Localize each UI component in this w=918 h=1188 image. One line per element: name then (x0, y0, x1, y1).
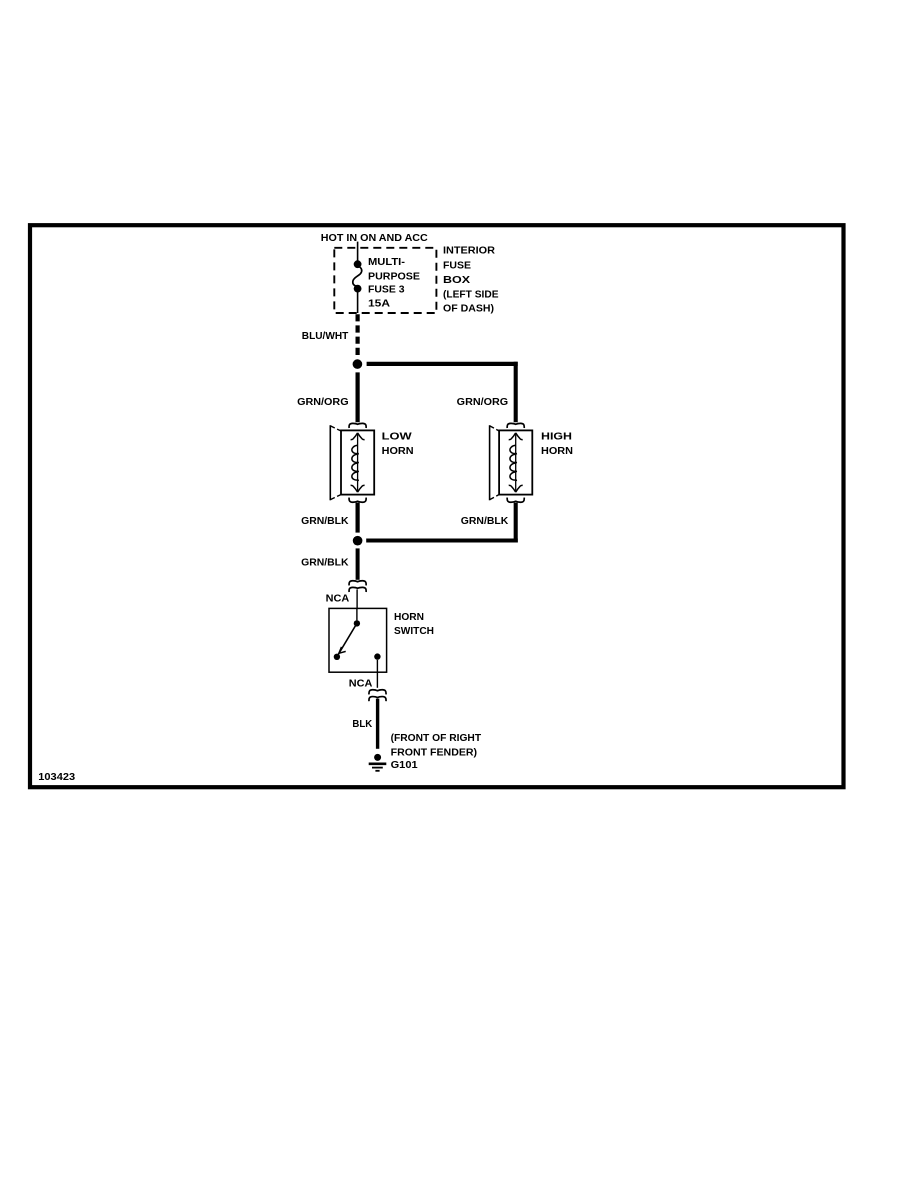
svg-text:HORN: HORN (541, 446, 573, 457)
svg-text:GRN/BLK: GRN/BLK (301, 557, 349, 568)
svg-text:MULTI-: MULTI- (368, 257, 405, 268)
svg-text:15A: 15A (368, 298, 390, 309)
svg-text:GRN/BLK: GRN/BLK (461, 516, 509, 527)
svg-text:HOT IN ON AND ACC: HOT IN ON AND ACC (321, 233, 428, 244)
svg-text:GRN/ORG: GRN/ORG (297, 397, 349, 408)
svg-text:LOW: LOW (382, 431, 413, 442)
svg-text:FRONT FENDER): FRONT FENDER) (391, 748, 478, 759)
svg-text:HORN: HORN (382, 446, 414, 457)
svg-text:GRN/BLK: GRN/BLK (301, 516, 349, 527)
svg-text:(FRONT OF RIGHT: (FRONT OF RIGHT (391, 733, 482, 744)
svg-text:NCA: NCA (349, 678, 373, 689)
svg-text:FUSE: FUSE (443, 261, 471, 272)
svg-text:GRN/ORG: GRN/ORG (457, 397, 509, 408)
svg-text:FUSE 3: FUSE 3 (368, 285, 405, 296)
svg-text:G101: G101 (391, 760, 418, 771)
svg-text:HORN: HORN (394, 612, 424, 623)
svg-text:BLK: BLK (352, 719, 373, 730)
svg-text:INTERIOR: INTERIOR (443, 245, 496, 256)
svg-text:OF DASH): OF DASH) (443, 304, 494, 315)
svg-text:PURPOSE: PURPOSE (368, 271, 420, 282)
svg-text:HIGH: HIGH (541, 431, 572, 442)
svg-text:BLU/WHT: BLU/WHT (302, 331, 349, 342)
svg-text:SWITCH: SWITCH (394, 626, 434, 637)
svg-text:NCA: NCA (326, 593, 350, 604)
svg-text:(LEFT SIDE: (LEFT SIDE (443, 290, 499, 301)
svg-text:103423: 103423 (38, 772, 75, 783)
svg-text:BOX: BOX (443, 275, 470, 286)
